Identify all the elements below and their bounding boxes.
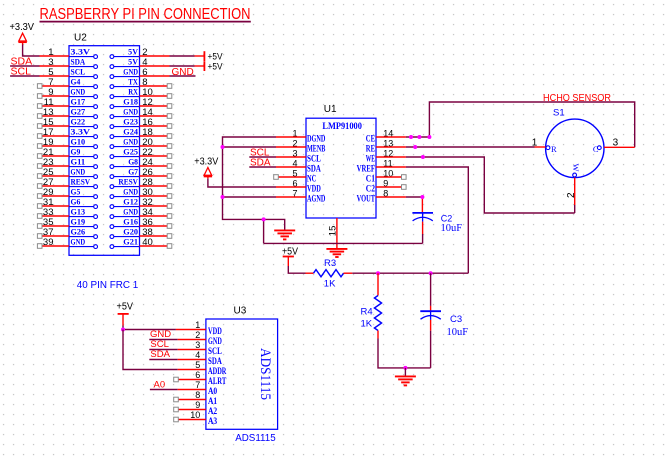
- U2 internal contact pin 12: [110, 98, 140, 109]
- junction on CE wire b: [417, 135, 421, 139]
- wire SCL to U1 pin 3: [249, 156, 276, 158]
- U2 internal contact pin 40: [110, 238, 140, 249]
- U1 pin number 10: [383, 169, 393, 179]
- svg-text:A0: A0: [154, 379, 166, 390]
- svg-text:AGND: AGND: [307, 194, 326, 204]
- svg-text:3: 3: [195, 340, 200, 350]
- U2 pin 23 stub (unconnected): [37, 164, 69, 169]
- sensor S1 label HCHO SENSOR: [543, 92, 611, 104]
- wire R4 to ground: [378, 331, 431, 368]
- U2 pin 30 stub (unconnected): [140, 194, 172, 199]
- power symbol +5V at U3: [117, 302, 134, 326]
- U2 pin 32 stub (unconnected): [140, 204, 172, 209]
- U2 pin number 2: [142, 47, 147, 58]
- U2 internal contact pin 9: [69, 88, 98, 99]
- svg-text:G17: G17: [71, 98, 86, 107]
- wire U1 RE to sensor pin 1: [406, 146, 535, 148]
- C2 value label: [441, 223, 463, 234]
- U2 internal contact pin 25: [69, 168, 98, 179]
- C3 value label: [447, 327, 469, 338]
- U2 internal contact pin 39: [69, 238, 98, 249]
- svg-text:4: 4: [195, 350, 200, 360]
- svg-text:G8: G8: [128, 158, 138, 167]
- U2 pin number 9: [48, 87, 53, 98]
- U1 pin number 11: [383, 159, 392, 169]
- sensor S1 body: [546, 119, 604, 177]
- svg-text:ALRT: ALRT: [208, 376, 226, 386]
- power symbol +3.3V at U1 VDD: [194, 156, 218, 178]
- U2 pin 18 stub (unconnected): [140, 134, 172, 139]
- svg-text:G13: G13: [71, 208, 86, 217]
- U1 pin number 1: [292, 129, 297, 139]
- svg-text:A2: A2: [208, 406, 218, 416]
- svg-text:HCHO SENSOR: HCHO SENSOR: [543, 92, 611, 104]
- U2 internal contact pin 15: [69, 118, 98, 129]
- U1 pin name NC: [307, 174, 316, 184]
- capacitor C3: [420, 311, 441, 331]
- svg-text:WE: WE: [366, 154, 375, 164]
- U2 internal contact pin 30: [110, 188, 140, 199]
- U2 pin 19 stub (unconnected): [37, 144, 69, 149]
- svg-text:G26: G26: [71, 228, 86, 237]
- schematic title text: [40, 6, 251, 23]
- U2 internal contact pin 21: [69, 148, 98, 159]
- U3 pin name ADDR: [208, 366, 227, 376]
- svg-text:GND: GND: [71, 168, 86, 177]
- U2 pin number 20: [142, 137, 153, 148]
- wire SDA to U1 pin 4: [249, 166, 276, 168]
- net label SCL at U1 pin 3: [250, 147, 270, 158]
- net label SCL at U3 pin 3: [150, 339, 168, 350]
- wire U1 WE to sensor pin 2: [406, 157, 575, 213]
- U1 pin 3 stub: [276, 156, 306, 158]
- wire U1 VREF to R3/C3 node: [406, 167, 468, 273]
- capacitor C2: [412, 213, 433, 244]
- svg-text:VDD: VDD: [208, 326, 222, 336]
- U1 pin 15 label: [328, 226, 339, 237]
- C2 reference label: [441, 213, 453, 223]
- wire SCL to U2 pin 5: [10, 75, 69, 77]
- svg-text:ADS1115: ADS1115: [257, 348, 273, 400]
- U2 pin number 3: [48, 57, 53, 68]
- wire A0 to U3 pin 7: [150, 389, 206, 391]
- U3 pin name A0: [208, 386, 218, 396]
- wire +5V to U3 ADDR: [123, 330, 206, 370]
- U2 pin 27 stub (unconnected): [37, 184, 69, 189]
- junction on CE wire a: [409, 135, 413, 139]
- U2 pin number 29: [43, 187, 54, 198]
- U2 pin number 4: [142, 57, 147, 68]
- op-amp IC U1 reference designator: [324, 104, 337, 115]
- power symbol +5V at R3: [282, 247, 298, 266]
- U2 pin 10 stub (unconnected): [140, 94, 172, 99]
- U2 pin number 21: [43, 147, 54, 158]
- svg-text:R: R: [551, 144, 557, 154]
- svg-text:GND: GND: [71, 238, 86, 247]
- U2 pin 31 stub (unconnected): [37, 204, 69, 209]
- U2 internal contact pin 38: [110, 228, 140, 239]
- U1 pin 7 stub: [276, 196, 306, 198]
- wire +3.3V to U2 pin 1: [23, 45, 69, 57]
- wire R3 to node: [344, 272, 469, 274]
- U3 pin name ALRT: [208, 376, 226, 386]
- U2 internal contact pin 6: [110, 68, 140, 79]
- svg-text:G19: G19: [71, 218, 86, 227]
- junction R3/R4: [376, 271, 380, 275]
- U2 pin 35 stub (unconnected): [37, 224, 69, 229]
- svg-text:SCL: SCL: [307, 154, 321, 164]
- IC U3 value label ADS1115: [235, 433, 276, 444]
- U2 pin 26 stub (unconnected): [140, 174, 172, 179]
- U2 internal contact pin 10: [110, 88, 140, 99]
- wire SCL to U3 pin 3: [149, 349, 206, 351]
- U2 pin 12 stub (unconnected): [140, 104, 172, 109]
- U2 internal contact pin 14: [110, 108, 140, 119]
- U2 pin 24 stub (unconnected): [140, 164, 172, 169]
- U3 pin name SCL: [208, 346, 222, 356]
- U2 pin number 18: [142, 127, 153, 138]
- U1 pin number 3: [292, 149, 297, 159]
- U2 internal contact pin 36: [110, 218, 140, 229]
- svg-text:VREF: VREF: [357, 164, 376, 174]
- svg-text:1K: 1K: [324, 279, 336, 290]
- U2 pin number 36: [142, 217, 153, 228]
- U2 pin number 39: [43, 237, 54, 248]
- U1 pin 2 stub: [276, 146, 306, 148]
- svg-text:A1: A1: [208, 396, 218, 406]
- svg-text:SDA: SDA: [307, 164, 321, 174]
- svg-text:TX: TX: [128, 78, 138, 87]
- U2 pin number 14: [142, 107, 153, 118]
- U2 pin number 34: [142, 207, 153, 218]
- U2 internal contact pin 19: [69, 138, 98, 149]
- U2 pin number 26: [142, 167, 153, 178]
- svg-text:GND: GND: [123, 68, 138, 77]
- wire +3.3V to U1 VDD: [208, 179, 276, 187]
- wire SDA to U2 pin 3: [10, 65, 69, 67]
- svg-text:S1: S1: [553, 108, 565, 119]
- U2 pin 33 stub (unconnected): [37, 214, 69, 219]
- U3 pin 6 stub (unconnected): [174, 377, 206, 382]
- svg-text:10uF: 10uF: [441, 223, 463, 234]
- U2 pin 8 stub (unconnected): [140, 84, 172, 89]
- IC U3 body: [206, 319, 278, 429]
- U1 pin 5 NC stub (unconnected): [274, 175, 306, 180]
- wire node to R4: [377, 273, 379, 295]
- U2 pin number 13: [43, 107, 54, 118]
- U3 pin number 6: [195, 370, 200, 380]
- U3 pin number 10: [190, 410, 200, 420]
- U1 pin number 14: [383, 129, 393, 139]
- junction at AGND: [221, 195, 225, 199]
- U2 internal contact pin 35: [69, 218, 98, 229]
- svg-text:CE: CE: [366, 134, 375, 144]
- svg-text:5V: 5V: [128, 48, 138, 57]
- IC U1 part name LMP91000: [322, 121, 362, 131]
- junction +5V/ADDR: [121, 328, 125, 332]
- svg-text:15: 15: [328, 226, 339, 237]
- U2 internal contact pin 31: [69, 198, 98, 209]
- U1 pin number 6: [292, 179, 297, 189]
- svg-text:G23: G23: [123, 118, 138, 127]
- svg-text:5V: 5V: [128, 58, 138, 67]
- S1 pin number 3: [613, 138, 619, 149]
- svg-text:+3.3V: +3.3V: [194, 156, 218, 167]
- U1 pin name WE: [366, 154, 375, 164]
- svg-text:C3: C3: [450, 314, 462, 325]
- U2 pin number 35: [43, 217, 54, 228]
- U1 pin number 2: [292, 139, 297, 149]
- svg-text:G24: G24: [123, 128, 138, 137]
- svg-text:+3.3V: +3.3V: [10, 22, 35, 33]
- resistor R3: [314, 270, 344, 277]
- svg-text:G4: G4: [71, 78, 81, 87]
- U2 internal contact pin 33: [69, 208, 98, 219]
- svg-text:10uF: 10uF: [447, 327, 469, 338]
- svg-text:RASPBERRY PI PIN CONNECTION: RASPBERRY PI PIN CONNECTION: [40, 6, 251, 23]
- svg-text:U3: U3: [234, 306, 247, 317]
- U2 internal contact pin 29: [69, 188, 98, 199]
- U2 pin number 15: [43, 117, 54, 128]
- U1 pin name RE: [366, 144, 375, 154]
- svg-text:NC: NC: [307, 174, 316, 184]
- U2 pin number 19: [43, 137, 54, 148]
- svg-text:VDD: VDD: [307, 184, 321, 194]
- U3 pin number 7: [195, 380, 200, 390]
- svg-text:C1: C1: [366, 174, 376, 184]
- wire U2 pin 4 to +5V: [140, 65, 205, 67]
- U2 pin number 8: [142, 77, 147, 88]
- svg-text:GND: GND: [123, 188, 138, 197]
- U1 pin 4 stub: [276, 166, 306, 168]
- svg-text:+5V: +5V: [208, 62, 224, 73]
- wire SDA to U3 pin 4: [149, 359, 206, 361]
- svg-text:40 PIN FRC 1: 40 PIN FRC 1: [77, 280, 139, 291]
- junction on WE wire: [421, 155, 425, 159]
- U2 pin number 23: [43, 157, 54, 168]
- U1 pin number 5: [292, 169, 297, 179]
- junction at VOUT: [420, 195, 424, 199]
- svg-text:6: 6: [195, 370, 200, 380]
- U2 pin number 33: [43, 207, 54, 218]
- U1 pin name SCL: [307, 154, 321, 164]
- svg-text:U1: U1: [324, 104, 337, 115]
- U2 internal contact pin 24: [110, 158, 140, 169]
- wire C3 to ground: [430, 331, 432, 368]
- svg-text:ADDR: ADDR: [208, 366, 227, 376]
- S1 terminal W: [571, 164, 581, 177]
- U2 pin 21 stub (unconnected): [37, 154, 69, 159]
- ground at R4/C3: [395, 368, 416, 386]
- U1 pin 9 C2 stub (unconnected): [376, 185, 406, 190]
- U2 pin 7 stub (unconnected): [37, 84, 69, 89]
- net label SDA at U1 pin 4: [250, 157, 271, 168]
- U1 pin number 9: [383, 179, 388, 189]
- U1 pin name SDA: [307, 164, 321, 174]
- U1 pin number 12: [383, 149, 393, 159]
- power symbol +3.3V at U2 pin 1: [10, 22, 35, 45]
- U2 pin number 28: [142, 177, 153, 188]
- junction at MENB: [221, 145, 225, 149]
- svg-text:8: 8: [195, 390, 200, 400]
- IC U1 body: [306, 118, 376, 218]
- svg-text:DGND: DGND: [307, 134, 326, 144]
- svg-text:G25: G25: [123, 148, 138, 157]
- U2 internal contact pin 8: [110, 78, 140, 89]
- svg-text:ADS1115: ADS1115: [235, 433, 276, 444]
- U2 pin 25 stub (unconnected): [37, 174, 69, 179]
- wire +5V to U3 VDD: [123, 326, 206, 330]
- wire GND to U3 pin 2: [149, 339, 206, 341]
- U2 internal contact pin 18: [110, 128, 140, 139]
- U2 internal contact pin 23: [69, 158, 98, 169]
- U3 pin 9 stub (unconnected): [174, 407, 206, 412]
- U1 pin number 8: [383, 189, 388, 199]
- svg-text:3.3V: 3.3V: [71, 48, 91, 57]
- U1 pin number 4: [292, 159, 297, 169]
- U2 pin 34 stub (unconnected): [140, 214, 172, 219]
- svg-text:GND: GND: [123, 108, 138, 117]
- net label A0 at U3 pin 7: [154, 379, 166, 390]
- U3 pin name A1: [208, 396, 218, 406]
- S1 pin 2 stub: [574, 178, 576, 214]
- U2 pin 16 stub (unconnected): [140, 124, 172, 129]
- svg-text:G18: G18: [123, 98, 138, 107]
- U2 internal contact pin 4: [110, 58, 140, 69]
- U2 pin number 38: [142, 227, 153, 238]
- wire U1 VOUT to C2: [406, 197, 423, 212]
- U2 pin 9 stub (unconnected): [37, 94, 69, 99]
- U2 pin 13 stub (unconnected): [37, 114, 69, 119]
- svg-text:G10: G10: [71, 138, 86, 147]
- svg-text:SDA: SDA: [150, 349, 170, 360]
- U3 pin name A3: [208, 416, 218, 426]
- U3 pin number 4: [195, 350, 200, 360]
- wire U2 pin 2 to +5V: [140, 55, 205, 57]
- junction ground branch: [262, 217, 266, 221]
- U2 pin number 22: [142, 147, 153, 158]
- U1 pin number 7: [292, 189, 297, 199]
- U2 internal contact pin 7: [69, 78, 98, 89]
- U2 pin 38 stub (unconnected): [140, 234, 172, 239]
- net label SDA at U3 pin 4: [150, 349, 170, 360]
- S1 terminal C: [593, 144, 601, 154]
- U2 pin number 6: [142, 67, 147, 78]
- net label GND at U2 pin 6: [172, 67, 194, 78]
- U1 pin name C2: [366, 184, 376, 194]
- svg-text:RE: RE: [366, 144, 375, 154]
- svg-text:GND: GND: [123, 208, 138, 217]
- svg-text:G27: G27: [71, 108, 86, 117]
- svg-text:9: 9: [195, 400, 200, 410]
- wire ground net U1 (DGND/MENB/AGND): [223, 137, 423, 243]
- resistor R4: [374, 296, 381, 331]
- U2 internal contact pin 11: [69, 98, 98, 109]
- U2 internal contact pin 34: [110, 208, 140, 219]
- svg-text:W: W: [571, 164, 581, 172]
- svg-text:2: 2: [195, 330, 200, 340]
- U2 internal contact pin 20: [110, 138, 140, 149]
- svg-text:SCL: SCL: [208, 346, 222, 356]
- U3 pin number 8: [195, 390, 200, 400]
- svg-text:G9: G9: [71, 148, 81, 157]
- U1 pin 13 stub: [376, 146, 406, 148]
- U2 pin number 24: [142, 157, 153, 168]
- U1 pin 15 pad wire: [336, 218, 338, 249]
- U3 pin name A2: [208, 406, 218, 416]
- U3 pin number 3: [195, 340, 200, 350]
- U3 pin name SDA: [208, 356, 222, 366]
- U2 pin number 5: [48, 67, 53, 78]
- svg-text:5: 5: [195, 360, 200, 370]
- svg-text:LMP91000: LMP91000: [322, 121, 362, 131]
- IC U3 rotated part name: [257, 348, 273, 400]
- ground at U1 pin 15: [326, 249, 347, 257]
- U1 pin 1 stub: [276, 136, 306, 138]
- U2 internal contact pin 28: [110, 178, 140, 189]
- svg-text:R3: R3: [324, 258, 336, 269]
- U2 pin number 37: [43, 227, 54, 238]
- U2 pin number 27: [43, 177, 54, 188]
- C3 reference label: [450, 314, 462, 325]
- U2 pin number 10: [142, 87, 153, 98]
- U2 internal contact pin 27: [69, 178, 98, 189]
- U3 pin name GND: [208, 336, 222, 346]
- U2 pin 40 stub (unconnected): [140, 244, 172, 249]
- svg-text:C: C: [593, 144, 599, 154]
- U1 pin name DGND: [307, 134, 326, 144]
- R4 reference label: [361, 307, 373, 318]
- svg-text:RESV: RESV: [118, 178, 138, 187]
- U2 internal contact pin 22: [110, 148, 140, 159]
- svg-text:G6: G6: [71, 198, 81, 207]
- svg-text:1: 1: [195, 320, 200, 330]
- svg-text:C2: C2: [441, 213, 453, 223]
- U1 pin 10 C1 stub (unconnected): [376, 175, 406, 180]
- wire +5V to R3: [288, 266, 313, 273]
- R3 value label 1K: [324, 279, 336, 290]
- ground at U1 AGND net: [274, 230, 295, 239]
- U2 internal contact pin 2: [110, 48, 140, 59]
- connector U2 body: [69, 46, 140, 256]
- U2 pin 15 stub (unconnected): [37, 124, 69, 129]
- svg-text:SDA: SDA: [71, 58, 86, 67]
- svg-text:G22: G22: [71, 118, 86, 127]
- svg-text:G5: G5: [71, 188, 81, 197]
- svg-text:G21: G21: [123, 238, 138, 247]
- U1 pin 8 stub: [376, 196, 406, 198]
- U2 internal contact pin 17: [69, 128, 98, 139]
- svg-text:C2: C2: [366, 184, 376, 194]
- connector U2 value label: [77, 280, 139, 291]
- svg-text:GND: GND: [208, 336, 222, 346]
- U2 pin number 12: [142, 97, 153, 108]
- svg-text:G12: G12: [123, 198, 138, 207]
- U2 pin 20 stub (unconnected): [140, 144, 172, 149]
- R3 reference label: [324, 258, 336, 269]
- svg-text:10: 10: [190, 410, 200, 420]
- junction at ground node: [403, 366, 407, 370]
- U2 pin 22 stub (unconnected): [140, 154, 172, 159]
- wire U1 CE to sensor pin 3: [406, 102, 635, 147]
- U1 pin name VDD: [307, 184, 321, 194]
- U2 pin 17 stub (unconnected): [37, 134, 69, 139]
- U1 pin name CE: [366, 134, 375, 144]
- U3 pin number 9: [195, 400, 200, 410]
- S1 pin 1 stub: [535, 146, 546, 148]
- power symbol +5V: [204, 51, 223, 62]
- svg-text:G20: G20: [123, 228, 138, 237]
